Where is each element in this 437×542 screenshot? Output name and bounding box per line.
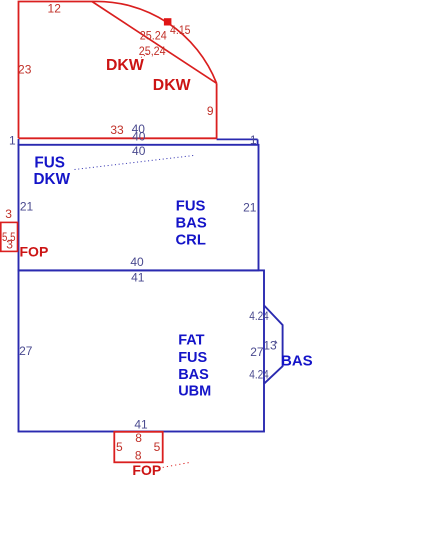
bottom room rectangle [19, 270, 265, 431]
red outline left wall [19, 2, 93, 139]
svg-text:3: 3 [5, 207, 12, 221]
svg-text:4.15: 4.15 [170, 23, 191, 37]
blue left connector [18, 139, 20, 146]
svg-text:5: 5 [116, 440, 123, 454]
red bottom wall [19, 137, 217, 139]
svg-text:40: 40 [132, 144, 146, 158]
svg-text:27: 27 [250, 345, 264, 359]
svg-text:8: 8 [135, 431, 142, 445]
blue strip right step [257, 139, 259, 144]
svg-text:21: 21 [20, 200, 34, 214]
bay window polygon [264, 305, 283, 383]
svg-text:27: 27 [19, 344, 33, 358]
middle room rectangle [19, 145, 259, 271]
svg-text:UBM: UBM [178, 384, 211, 400]
svg-text:41: 41 [131, 270, 145, 284]
svg-text:DKW: DKW [153, 77, 191, 94]
svg-text:FUS: FUS [176, 199, 206, 215]
svg-text:BAS: BAS [281, 352, 313, 369]
svg-text:41: 41 [134, 418, 148, 432]
svg-text:1: 1 [9, 134, 16, 148]
svg-text:3: 3 [6, 238, 13, 252]
blue strip top line right of red [217, 138, 258, 140]
svg-text:BAS: BAS [176, 216, 207, 232]
svg-text:21: 21 [243, 201, 257, 215]
svg-text:40: 40 [130, 255, 144, 269]
svg-text:DKW: DKW [106, 57, 144, 74]
svg-text:40: 40 [132, 129, 146, 143]
red marker square on arc [164, 18, 172, 25]
tick after 13 [275, 341, 277, 344]
svg-text:4.24: 4.24 [249, 309, 269, 323]
svg-text:FOP: FOP [20, 244, 49, 260]
svg-text:12: 12 [48, 2, 62, 16]
svg-text:4.24: 4.24 [249, 368, 269, 382]
svg-text:FAT: FAT [178, 333, 204, 349]
red bottom box [114, 432, 162, 463]
red roof arc [92, 1, 217, 83]
blue dotted leader [75, 155, 196, 169]
svg-text:23: 23 [18, 63, 32, 77]
red side box [1, 222, 18, 251]
leader dots near 25,24 [141, 54, 148, 58]
svg-text:25.24: 25.24 [140, 28, 167, 42]
svg-text:5: 5 [154, 440, 161, 454]
red roof diagonal [92, 2, 217, 84]
svg-text:8: 8 [135, 449, 142, 463]
svg-text:FUS: FUS [34, 155, 65, 172]
svg-text:FUS: FUS [178, 350, 207, 366]
red dotted leader [163, 462, 191, 467]
svg-text:33: 33 [110, 123, 124, 137]
svg-text:DKW: DKW [34, 171, 71, 188]
svg-text:13: 13 [263, 339, 277, 353]
svg-text:BAS: BAS [178, 367, 209, 383]
svg-text:CRL: CRL [176, 233, 206, 249]
svg-text:FOP: FOP [132, 462, 161, 478]
red right wall [216, 83, 218, 139]
svg-text:25,24: 25,24 [139, 44, 166, 58]
svg-text:9: 9 [207, 104, 214, 118]
